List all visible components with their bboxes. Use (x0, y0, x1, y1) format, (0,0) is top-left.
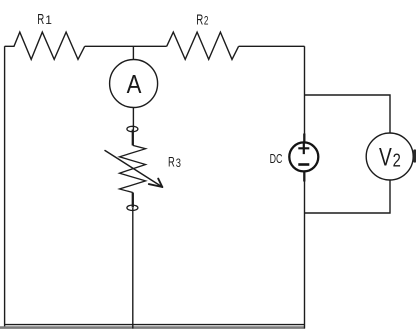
R3 wiper arrow (105, 151, 162, 188)
wire: V2 branch bottom (305, 180, 391, 213)
svg-text:R: R (37, 11, 44, 28)
clipped terminal blob at right edge (413, 151, 416, 161)
DC source V1 thick stubs (303, 134, 305, 144)
svg-text:2: 2 (204, 14, 209, 28)
DC plus sign (298, 143, 309, 155)
wire: bottom horizontal (5, 324, 305, 326)
svg-text:2: 2 (393, 150, 401, 170)
resistor R1 (5, 32, 85, 59)
R3 top thick stub (132, 130, 134, 146)
DC minus sign (298, 163, 309, 166)
voltmeter V2 circle (366, 133, 413, 180)
svg-text:V: V (379, 144, 392, 172)
resistor R3 zigzag (120, 145, 146, 192)
svg-text:DC: DC (270, 151, 283, 166)
resistor R2 (167, 32, 239, 59)
R3 bottom terminal ellipse (127, 205, 138, 210)
wire: ammeter to R3 (132, 108, 134, 130)
wire: ammeter branch top stub (132, 46, 134, 60)
wire: left vertical branch (4, 46, 6, 328)
svg-text:R: R (196, 12, 203, 29)
svg-text:A: A (127, 69, 142, 99)
svg-text:3: 3 (176, 158, 181, 170)
wire: R3 to bottom (132, 208, 134, 329)
wire: top between R1 and R2 (85, 45, 167, 47)
wire: right vertical branch (304, 46, 306, 328)
ammeter U1 circle (110, 60, 158, 108)
R3 bottom thick stub (132, 193, 134, 208)
svg-text:1: 1 (45, 13, 52, 27)
wire: top right to corner (239, 45, 305, 47)
canvas bottom edge (grey bar) (0, 326, 305, 329)
svg-text:R: R (168, 154, 175, 170)
R3 top terminal ellipse (127, 126, 138, 131)
wire: V2 branch top (305, 95, 391, 134)
DC source V1 circle (289, 142, 318, 171)
